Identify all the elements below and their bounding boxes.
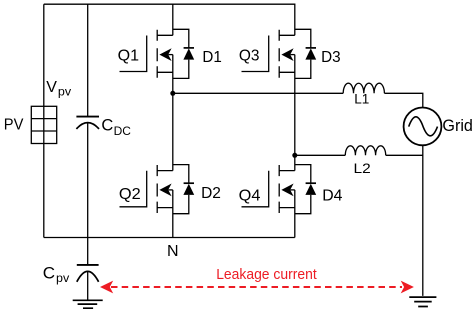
- AC source Grid (circle with sine): [404, 108, 442, 146]
- svg-text:N: N: [167, 243, 179, 260]
- leakage current dashed path: [100, 281, 414, 294]
- svg-text:D4: D4: [322, 187, 342, 204]
- ground (left, below Cpv): [73, 300, 103, 308]
- ground (right, below grid): [409, 297, 436, 306]
- PV source PV: [31, 106, 56, 143]
- svg-text:V: V: [46, 79, 57, 96]
- node B (junction dot): [292, 153, 297, 158]
- svg-text:pv: pv: [56, 271, 69, 285]
- wire: Q4 source to bottom rail: [294, 190, 296, 238]
- wire: top DC rail with corner into Q3 drain: [44, 4, 295, 35]
- node A (junction dot): [170, 91, 175, 96]
- svg-text:Grid: Grid: [442, 116, 473, 135]
- svg-text:C: C: [101, 116, 113, 134]
- transistor Q1: [120, 30, 173, 78]
- wire: Q3 source down to node B: [294, 55, 296, 156]
- wire: bottom DC rail: [44, 237, 295, 239]
- svg-text:Q2: Q2: [119, 186, 141, 203]
- svg-text:Leakage current: Leakage current: [216, 266, 317, 283]
- svg-text:Q1: Q1: [118, 48, 140, 65]
- wire: Q1 drain to top rail: [172, 4, 174, 35]
- diode D3: [295, 29, 316, 78]
- svg-text:C: C: [43, 263, 55, 282]
- capacitor Cpv: [77, 265, 99, 282]
- wire: node A down to Q2 drain: [172, 93, 174, 170]
- svg-text:D3: D3: [321, 49, 341, 66]
- inductor L1: [343, 83, 384, 93]
- wire: node B to L2: [295, 154, 346, 156]
- svg-text:PV: PV: [4, 117, 24, 134]
- transistor Q3: [242, 30, 295, 78]
- wire: L1 to grid top: [384, 93, 422, 107]
- wire: Q2 source to bottom rail: [172, 190, 174, 238]
- svg-text:pv: pv: [58, 84, 71, 98]
- wire: node A to L1: [173, 92, 343, 94]
- wire: L2 to grid bottom junction: [386, 154, 423, 156]
- wire: Cpv to left ground: [87, 271, 89, 300]
- svg-text:DC: DC: [114, 124, 132, 138]
- transistor Q2: [120, 165, 173, 213]
- diode D2: [173, 165, 194, 214]
- transistor Q4: [242, 165, 295, 213]
- svg-text:Q3: Q3: [239, 48, 260, 65]
- wire: CDC branch top: [87, 4, 89, 116]
- diode D1: [173, 29, 194, 78]
- svg-text:L1: L1: [354, 91, 369, 107]
- svg-text:Q4: Q4: [239, 187, 261, 204]
- diode D4: [295, 165, 316, 214]
- wire: node B down to Q4 drain: [294, 155, 296, 170]
- svg-text:D2: D2: [201, 185, 221, 202]
- svg-text:D1: D1: [202, 49, 221, 66]
- capacitor CDC: [76, 117, 99, 129]
- svg-text:L2: L2: [354, 160, 371, 176]
- wire: Q1 source down to node A: [172, 55, 174, 94]
- wire: left DC bus vertical: [43, 4, 45, 237]
- wire: CDC bottom through rail to Cpv: [87, 123, 89, 265]
- wire: grid bottom to right ground: [422, 145, 424, 296]
- inductor L2: [345, 146, 385, 156]
